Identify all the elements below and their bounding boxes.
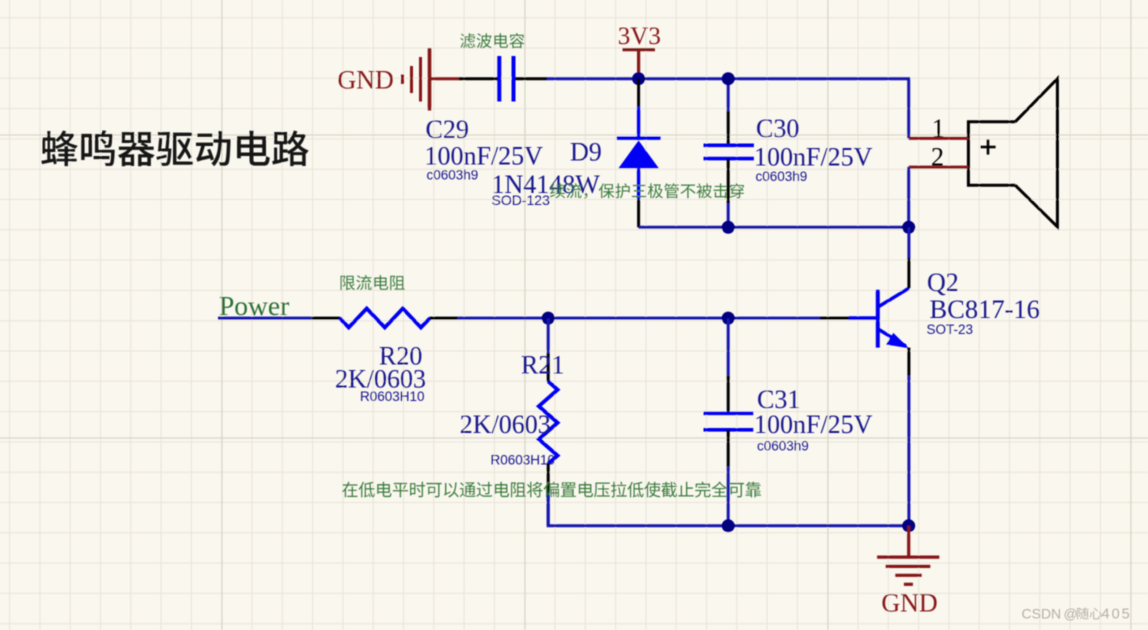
annotation 限流电阻 (341, 275, 405, 290)
wire Power to R20 (218, 317, 312, 320)
svg-text:2K/0603: 2K/0603 (460, 410, 551, 439)
wire second rail (D9 bottom to C30/Q2) (639, 226, 909, 229)
wire speaker pin 2 down to second rail (907, 167, 910, 227)
power port 3V3 (618, 23, 661, 75)
ground GND (bottom) (877, 526, 939, 618)
speaker pin 2 (909, 166, 969, 169)
svg-text:SOD-123: SOD-123 (492, 192, 551, 208)
wire top rail (547, 79, 909, 139)
svg-text:@: @ (1064, 606, 1078, 622)
junction R21 top (542, 312, 555, 325)
svg-text:D9: D9 (570, 138, 602, 167)
svg-text:C29: C29 (426, 115, 469, 144)
wire R20 to Q2 base (458, 317, 820, 320)
svg-text:R0603H10: R0603H10 (491, 453, 556, 468)
annotation 续流，保护三极管不被击穿 (550, 183, 744, 199)
svg-text:405: 405 (1102, 607, 1132, 623)
resistor R20 (312, 309, 458, 328)
svg-text:R21: R21 (521, 351, 564, 380)
capacitor C30 (704, 79, 754, 228)
svg-text:GND: GND (338, 66, 394, 95)
transistor Q2 BC817-16 (NPN) (820, 258, 909, 376)
capacitor C31 (704, 318, 754, 526)
svg-text:R0603H10: R0603H10 (360, 389, 425, 404)
junction second rail / Q2 collector (902, 221, 915, 234)
junction C31 top (722, 312, 735, 325)
annotation 在低电平时可以通过电阻将偏置电压拉低使截止完全可靠 (342, 482, 761, 498)
title text 蜂鸣器驱动电路 (41, 130, 308, 166)
wire bottom rail (548, 495, 909, 526)
svg-text:Q2: Q2 (927, 268, 959, 297)
svg-text:100nF/25V: 100nF/25V (754, 143, 873, 172)
svg-text:SOT-23: SOT-23 (927, 322, 974, 337)
junction GND / emitter (902, 519, 915, 532)
svg-text:1: 1 (932, 114, 945, 143)
ground GND (top-left power ground, rotated) (338, 48, 460, 111)
speaker (buzzer) symbol (968, 79, 1057, 227)
speaker plus polarity mark (981, 139, 996, 154)
speaker pin 1 (909, 137, 969, 140)
svg-text:c0603h9: c0603h9 (757, 439, 809, 454)
wire Q2 emitter down to bottom rail (907, 376, 910, 526)
diode D9 1N4148W (617, 79, 661, 228)
svg-text:Power: Power (219, 290, 289, 321)
svg-text:GND: GND (881, 589, 937, 618)
junction 3V3/top rail (632, 72, 645, 85)
wire Q2 collector up to junction (907, 227, 910, 258)
resistor R21 (539, 318, 558, 526)
junction C31 bottom (722, 519, 735, 532)
svg-text:C30: C30 (756, 114, 799, 143)
svg-text:BC817-16: BC817-16 (930, 294, 1040, 324)
svg-text:CSDN: CSDN (1022, 606, 1062, 622)
svg-text:3V3: 3V3 (618, 23, 661, 50)
svg-text:100nF/25V: 100nF/25V (754, 410, 873, 439)
junction C30 bottom (722, 221, 735, 234)
svg-text:c0603h9: c0603h9 (427, 168, 479, 183)
svg-text:c0603h9: c0603h9 (756, 169, 808, 184)
annotation 滤波电容 (460, 33, 524, 48)
svg-text:2: 2 (931, 143, 944, 172)
watermark CSDN @随心405 (1022, 606, 1132, 623)
capacitor C29 (459, 56, 547, 102)
svg-text:100nF/25V: 100nF/25V (425, 142, 544, 171)
junction C30 top (722, 72, 735, 85)
